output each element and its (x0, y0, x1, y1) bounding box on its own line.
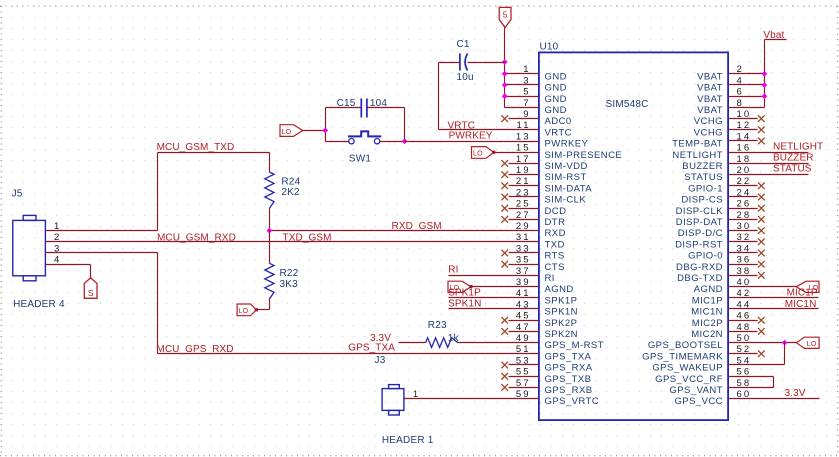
svg-text:MIC1P: MIC1P (787, 288, 818, 299)
wire Vbat top horizontal (765, 39, 787, 41)
U10 pin 5 GND (523, 87, 567, 105)
svg-text:U10: U10 (540, 42, 559, 53)
svg-text:GPS_M-RST: GPS_M-RST (545, 340, 604, 351)
svg-text:DISP-CS: DISP-CS (681, 195, 723, 206)
svg-text:SPK1P: SPK1P (448, 288, 481, 299)
svg-text:DTR: DTR (545, 217, 566, 228)
svg-text:GPS_VCC: GPS_VCC (674, 396, 723, 407)
power port flag "S" (J5 pin 4) (84, 278, 97, 299)
wire U10 pin 6 to Vbat (729, 96, 765, 98)
U10 pin 21 SIM-DATA (no-connect X) (501, 176, 592, 194)
port flag LO (AGND pin 39) (448, 281, 471, 292)
svg-text:SPK1N: SPK1N (545, 307, 578, 318)
svg-text:5: 5 (503, 10, 508, 20)
U10 pin 23 SIM-CLK (no-connect X) (501, 187, 586, 205)
wire U10 pin 5 to bus (505, 96, 539, 98)
svg-text:R24: R24 (281, 177, 300, 188)
junction LO/left vertical (322, 128, 328, 134)
U10 pin 34 GPIO-0 (no-connect X) (688, 243, 765, 261)
wire 3.3V to R23 (399, 342, 426, 344)
junction Vbat/pin2 (762, 71, 768, 77)
wire Vbat vertical bus (764, 40, 766, 108)
U10 pin 55 GPS_TXB (no-connect X) (501, 367, 591, 385)
capacitor C15 104 (337, 98, 388, 117)
junction bus/pin5 (502, 93, 508, 99)
svg-text:BUZZER: BUZZER (682, 161, 723, 172)
svg-text:MIC1N: MIC1N (691, 307, 723, 318)
U10 pin 31 TXD (516, 232, 565, 250)
wire MIC1P (U10 pin 42) (729, 297, 819, 299)
junction bus/pin1 (502, 71, 508, 77)
U10 pin 9 ADC0 (no-connect X) (501, 109, 571, 127)
svg-text:C15: C15 (337, 98, 356, 109)
U10 pin 12 VCHG (no-connect X) (694, 120, 765, 138)
wire MCU_GSM_RXD / TXD_GSM (J5 pin 2 to U10 pin 31) (46, 241, 539, 243)
svg-text:LO: LO (807, 341, 817, 348)
svg-text:GPIO-1: GPIO-1 (688, 183, 723, 194)
wire SW1 branch left (326, 141, 349, 143)
U10 pin 58 GPS_VANT (669, 378, 751, 396)
power port flag "5" (+5V) (499, 7, 511, 27)
connector J3 HEADER 1 (375, 355, 434, 446)
svg-text:RI: RI (545, 273, 555, 284)
U10 pin 8 VBAT (697, 98, 744, 116)
svg-text:SPK1N: SPK1N (448, 299, 481, 310)
svg-text:SPK2P: SPK2P (545, 318, 578, 329)
svg-text:DISP-D/C: DISP-D/C (678, 228, 723, 239)
U10 pin 56 GPS_VCC_RF (655, 367, 751, 385)
junction R24/RXD_GSM (267, 228, 273, 234)
wire LO flag to SW1 network (303, 130, 326, 132)
svg-text:TEMP-BAT: TEMP-BAT (672, 139, 723, 150)
wire U10 pin 56 (729, 376, 774, 378)
U10 pin 22 GPIO-1 (no-connect X) (688, 176, 765, 194)
wire BUZZER (U10 pin 18) (729, 163, 809, 165)
U10 pin 28 DISP-DAT (no-connect X) (676, 210, 765, 228)
resistor R24 2K2 (265, 172, 301, 208)
U10 pin 33 RTS (no-connect X) (501, 243, 564, 261)
U10 pin 26 DISP-CLK (no-connect X) (676, 199, 765, 217)
wire RI (U10 pin 37) (449, 275, 539, 277)
svg-text:MIC2P: MIC2P (692, 318, 723, 329)
U10 pin 7 GND (523, 98, 567, 116)
wire R22 to LO flag (257, 309, 270, 311)
wire U10 pin 50 to LO flag (729, 342, 797, 344)
wire R23 to U10 pin 49 (458, 342, 539, 344)
wire U10 pin 54 (729, 364, 785, 366)
svg-text:GPS_RXA: GPS_RXA (545, 363, 593, 374)
svg-text:VCHG: VCHG (694, 116, 723, 127)
IC U10 SIM548C body (539, 42, 728, 421)
svg-text:MCU_GSM_TXD: MCU_GSM_TXD (157, 142, 235, 153)
svg-text:RTS: RTS (545, 251, 565, 262)
wire PWRKEY to U10 pin 13 (405, 141, 539, 143)
svg-text:SPK2N: SPK2N (545, 329, 578, 340)
wire +5 bus vertical (504, 28, 506, 108)
svg-text:3.3V: 3.3V (370, 333, 391, 344)
U10 pin 17 SIM-VDD (no-connect X) (501, 154, 587, 172)
svg-text:AGND: AGND (545, 284, 574, 295)
svg-text:2K2: 2K2 (281, 187, 300, 198)
node LO flag tip dot (492, 151, 495, 154)
wire VRTC to U10 pin 11 (439, 129, 539, 131)
svg-text:SPK1P: SPK1P (545, 295, 578, 306)
U10 pin 32 DISP-RST (no-connect X) (675, 232, 765, 250)
svg-text:SIM-PRESENCE: SIM-PRESENCE (545, 150, 623, 161)
svg-text:RXD_GSM: RXD_GSM (392, 221, 442, 232)
svg-text:STATUS: STATUS (684, 172, 723, 183)
svg-text:NETLIGHT: NETLIGHT (672, 150, 723, 161)
svg-text:AGND: AGND (694, 284, 723, 295)
svg-text:MIC1P: MIC1P (692, 295, 723, 306)
wire J5 pin 3 (46, 252, 158, 254)
U10 pin 1 GND (523, 64, 567, 82)
wire NETLIGHT (U10 pin 16) (729, 152, 809, 154)
svg-text:SIM-CLK: SIM-CLK (545, 195, 587, 206)
svg-text:MIC2N: MIC2N (691, 329, 723, 340)
U10 pin 19 SIM-RST (no-connect X) (501, 165, 586, 183)
wire MCU_GPS_RXD / GPS_TXA (to U10 pin 51) (158, 353, 539, 355)
svg-text:HEADER 4: HEADER 4 (13, 299, 65, 310)
svg-text:GND: GND (545, 71, 567, 82)
U10 pin 54 GPS_WAKEUP (652, 355, 751, 373)
svg-text:VBAT: VBAT (697, 94, 723, 105)
svg-text:SIM-RST: SIM-RST (545, 172, 587, 183)
U10 pin 3 GND (523, 75, 567, 93)
svg-text:HEADER 1: HEADER 1 (382, 435, 434, 446)
svg-text:J3: J3 (375, 355, 386, 366)
svg-text:3K3: 3K3 (280, 279, 299, 290)
U10 pin 30 DISP-D/C (no-connect X) (678, 221, 765, 239)
svg-text:104: 104 (370, 98, 388, 109)
wire U10 pin 8 to Vbat (corner) (729, 107, 765, 109)
U10 pin 14 TEMP-BAT (no-connect X) (672, 131, 765, 149)
U10 pin 2 VBAT (697, 64, 744, 82)
U10 pin 44 MIC1N (691, 299, 751, 317)
wire MCU_GSM_TXD horizontal (158, 152, 270, 154)
svg-text:DISP-DAT: DISP-DAT (676, 217, 723, 228)
svg-text:MCU_GPS_RXD: MCU_GPS_RXD (156, 344, 233, 355)
svg-text:VBAT: VBAT (697, 71, 723, 82)
svg-text:LO: LO (282, 129, 292, 136)
svg-text:GND: GND (545, 105, 567, 116)
wire R22 bottom lead (269, 299, 271, 310)
wire J5 pin 4 drop to S flag (90, 265, 92, 278)
svg-text:J5: J5 (12, 188, 23, 199)
svg-text:VBAT: VBAT (697, 83, 723, 94)
wire MIC1N (U10 pin 44) (729, 308, 819, 310)
wire SW1 branch right (380, 141, 405, 143)
switch SW1 (push button) (348, 131, 381, 164)
junction Vbat/pin6 (762, 93, 768, 99)
U10 pin 29 RXD (516, 221, 566, 239)
svg-text:RXD: RXD (545, 228, 566, 239)
svg-text:GPS_RXB: GPS_RXB (545, 385, 593, 396)
U10 pin 42 MIC1P (692, 288, 752, 306)
svg-text:LO: LO (239, 308, 249, 315)
U10 pin 57 GPS_RXB (no-connect X) (501, 378, 592, 396)
svg-text:GPS_TIMEMARK: GPS_TIMEMARK (642, 351, 723, 362)
U10 pin 15 SIM-PRESENCE (516, 143, 622, 161)
U10 pin 43 SPK1N (516, 299, 578, 317)
svg-text:STATUS: STATUS (773, 164, 812, 175)
capacitor C1 10u (457, 39, 474, 83)
svg-text:GND: GND (545, 83, 567, 94)
wire STATUS (U10 pin 20) (729, 174, 809, 176)
U10 pin 4 VBAT (697, 75, 744, 93)
wire junction to R22 (269, 231, 271, 264)
wire C1 left lead (439, 62, 460, 64)
wire SPK1P (U10 pin 41) (449, 297, 539, 299)
wire U10 pin 7 to bus (corner) (505, 107, 539, 109)
U10 pin 41 SPK1P (516, 288, 578, 306)
wire C15 branch right (368, 107, 405, 109)
svg-text:PWRKEY: PWRKEY (449, 131, 493, 142)
svg-text:S: S (88, 288, 94, 298)
wire MCU_GPS_RXD vertical (157, 253, 159, 354)
wire RXD_GSM (to U10 pin 29) (270, 230, 539, 232)
wire J5 pin 4 (46, 264, 91, 266)
wire U10 pin 3 to bus (505, 84, 539, 86)
svg-text:VRTC: VRTC (545, 127, 573, 138)
svg-text:DBG-RXD: DBG-RXD (676, 262, 723, 273)
svg-text:RI: RI (448, 265, 458, 276)
junction bus/pin3 (502, 82, 508, 88)
svg-text:DBG-TXD: DBG-TXD (677, 273, 723, 284)
wire SW1 network right vertical (404, 108, 406, 142)
wire SW1 network left vertical (325, 108, 327, 142)
resistor R23 1k (426, 320, 460, 347)
wire U10 pin 1 to bus (505, 73, 539, 75)
wire J3 pin 1 to U10 pin 59 (405, 398, 539, 400)
svg-text:GPS_BOOTSEL: GPS_BOOTSEL (648, 340, 723, 351)
wire pin56-pin58 vertical (773, 377, 775, 388)
svg-text:ADC0: ADC0 (545, 116, 572, 127)
U10 pin 27 DTR (no-connect X) (501, 210, 565, 228)
U10 pin 47 SPK2N (no-connect X) (501, 322, 578, 340)
svg-text:MIC1N: MIC1N (785, 299, 817, 310)
connector J5 HEADER 4 (12, 188, 65, 310)
U10 pin 39 AGND (516, 277, 574, 295)
wire R24 top lead (269, 153, 271, 173)
svg-text:GPS_VANT: GPS_VANT (669, 385, 723, 396)
port flag LO (GPS_BOOTSEL) (797, 337, 820, 348)
U10 pin 52 GPS_TIMEMARK (no-connect X) (642, 344, 764, 362)
node LO flag tip dot (255, 308, 258, 311)
svg-text:TXD_GSM: TXD_GSM (283, 232, 332, 243)
U10 pin 13 PWRKEY (516, 131, 589, 149)
svg-text:10u: 10u (457, 72, 474, 83)
svg-text:TXD: TXD (545, 239, 565, 250)
svg-text:SIM-VDD: SIM-VDD (545, 161, 588, 172)
U10 pin 36 DBG-RXD (no-connect X) (676, 255, 765, 273)
wire LO flag to U10 pin 15 (494, 152, 539, 154)
U10 pin 45 SPK2P (no-connect X) (501, 311, 577, 329)
svg-text:GPS_VCC_RF: GPS_VCC_RF (655, 374, 723, 385)
svg-text:VCHG: VCHG (694, 127, 723, 138)
wire C15 branch left (326, 107, 362, 109)
U10 pin 16 NETLIGHT (672, 143, 751, 161)
wire pin50-pin54 vertical (784, 343, 786, 365)
port flag LO (left of SW1) (280, 125, 303, 137)
svg-text:DISP-RST: DISP-RST (675, 239, 723, 250)
svg-text:VBAT: VBAT (697, 105, 723, 116)
U10 pin 38 DBG-TXD (no-connect X) (677, 266, 765, 284)
port flag LO (AGND pin 40) (796, 281, 819, 292)
U10 pin 48 MIC2N (no-connect X) (691, 322, 764, 340)
U10 pin 50 GPS_BOOTSEL (648, 333, 751, 351)
port flag LO (R22 pulldown) (237, 304, 256, 316)
junction bus/C1 (502, 59, 508, 65)
wire U10 pin 4 to Vbat (729, 84, 765, 86)
junction SW1/PWRKEY (402, 138, 408, 144)
resistor R22 3K3 (265, 263, 299, 299)
U10 pin 24 DISP-CS (no-connect X) (681, 187, 764, 205)
svg-text:VRTC: VRTC (448, 120, 475, 131)
svg-text:SW1: SW1 (349, 153, 372, 164)
svg-text:SIM-DATA: SIM-DATA (545, 183, 593, 194)
svg-text:R23: R23 (428, 320, 447, 331)
junction Vbat/pin4 (762, 82, 768, 88)
svg-text:PWRKEY: PWRKEY (545, 139, 589, 150)
svg-text:GPIO-0: GPIO-0 (688, 251, 723, 262)
wire J5 pin 1 (46, 230, 158, 232)
svg-text:GPS_VRTC: GPS_VRTC (545, 396, 600, 407)
wire U10 pin 40 to LO flag (729, 286, 797, 288)
svg-text:DISP-CLK: DISP-CLK (676, 206, 724, 217)
junction pin50/pin54 vertical (782, 340, 788, 346)
U10 pin 53 GPS_RXA (no-connect X) (501, 355, 592, 373)
wire LO flag to U10 pin 39 (471, 286, 539, 288)
U10 pin 46 MIC2P (no-connect X) (692, 311, 765, 329)
U10 pin 49 GPS_M-RST (516, 333, 604, 351)
U10 pin 51 GPS_TXA (516, 344, 592, 362)
U10 pin 25 DCD (no-connect X) (501, 199, 566, 217)
U10 pin 40 AGND (694, 277, 752, 295)
wire R24 bottom lead (269, 209, 271, 231)
node LO flag tip dot (469, 285, 472, 288)
U10 pin 20 STATUS (684, 165, 751, 183)
svg-text:GPS_TXB: GPS_TXB (545, 374, 592, 385)
wire GPS_VCC (U10 pin 60) (729, 398, 820, 400)
U10 pin 10 VCHG (no-connect X) (694, 109, 765, 127)
svg-text:SIM548C: SIM548C (606, 99, 649, 110)
U10 pin 35 CTS (no-connect X) (501, 255, 564, 273)
U10 pin 6 VBAT (697, 87, 744, 105)
U10 pin 11 VRTC (517, 120, 572, 138)
svg-text:NETLIGHT: NETLIGHT (773, 141, 823, 152)
svg-text:GPS_TXA: GPS_TXA (348, 342, 395, 353)
svg-text:BUZZER: BUZZER (773, 153, 814, 164)
svg-text:3.3V: 3.3V (785, 388, 806, 399)
svg-text:C1: C1 (457, 39, 470, 50)
svg-text:GND: GND (545, 94, 567, 105)
svg-text:LO: LO (473, 151, 483, 158)
svg-text:DCD: DCD (545, 206, 567, 217)
U10 pin 37 RI (516, 266, 555, 284)
U10 pin 59 GPS_VRTC (516, 389, 599, 407)
svg-text:GPS_TXA: GPS_TXA (545, 351, 592, 362)
U10 pin 18 BUZZER (682, 154, 751, 172)
svg-text:13: 13 (516, 131, 531, 142)
wire C1 right lead (468, 62, 505, 64)
svg-text:GPS_WAKEUP: GPS_WAKEUP (652, 363, 723, 374)
svg-text:R22: R22 (280, 268, 299, 279)
port flag LO (SIM-PRESENCE) (472, 147, 494, 159)
U10 pin 60 GPS_VCC (674, 389, 751, 407)
wire U10 pin 58 (729, 387, 774, 389)
wire MCU_GSM_TXD vertical (157, 153, 159, 231)
wire U10 pin 2 to Vbat (729, 73, 765, 75)
svg-text:CTS: CTS (545, 262, 565, 273)
wire C1 to VRTC vertical (438, 63, 440, 130)
wire SPK1N (U10 pin 43) (449, 308, 539, 310)
svg-text:MCU_GSM_RXD: MCU_GSM_RXD (157, 232, 236, 243)
